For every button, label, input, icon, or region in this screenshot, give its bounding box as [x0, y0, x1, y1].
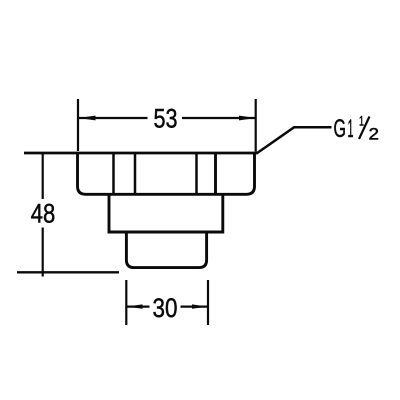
- leader line for G1 1/2: [257, 127, 332, 153]
- bottom step outline: [126, 233, 206, 268]
- dim 30 line right segment: [181, 306, 208, 308]
- arrowhead 53 right: [239, 116, 256, 121]
- dim 48 line upper segment: [42, 152, 44, 199]
- dim 30 right extension line: [207, 280, 209, 325]
- dim 48 bottom reference line: [17, 271, 119, 273]
- dim 53 left extension line: [77, 99, 79, 151]
- hex flat line 1: [112, 154, 115, 194]
- svg-text:48: 48: [31, 198, 56, 228]
- arrowhead 30 right: [192, 304, 208, 308]
- hex flat line 3: [195, 154, 198, 194]
- svg-text:30: 30: [153, 293, 178, 323]
- dim 30 left extension line: [125, 280, 127, 325]
- middle step outline: [109, 196, 223, 233]
- arrowhead 30 left: [127, 304, 143, 308]
- hex flat line 2: [134, 154, 137, 194]
- dim 53 right extension line: [255, 99, 257, 152]
- dim 53 line left segment: [79, 117, 148, 119]
- svg-text:1: 1: [359, 114, 364, 129]
- dim 53 line right segment: [182, 117, 255, 119]
- hex flat line 4: [214, 154, 217, 194]
- dim 30 line left segment: [127, 306, 150, 308]
- part top surface line (also 48 top reference): [24, 152, 257, 155]
- svg-text:G: G: [334, 115, 347, 143]
- svg-text:1: 1: [348, 115, 354, 143]
- fraction slash of 1/2: [359, 117, 370, 140]
- dim 48 line lower segment: [42, 228, 44, 277]
- svg-text:2: 2: [369, 126, 380, 144]
- arrowhead 53 left: [78, 116, 95, 121]
- hex head outline: [78, 153, 255, 194]
- svg-text:53: 53: [154, 104, 178, 134]
